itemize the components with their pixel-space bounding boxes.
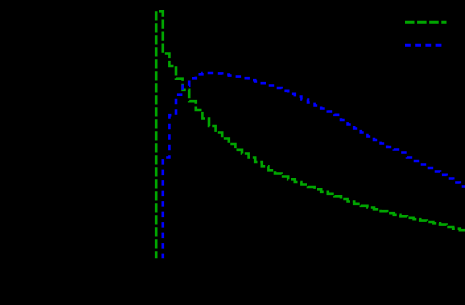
blue step curve	[163, 73, 465, 258]
legend blue dashed sample	[405, 44, 441, 47]
legend green dashed sample	[405, 21, 447, 24]
green step curve	[156, 11, 465, 258]
